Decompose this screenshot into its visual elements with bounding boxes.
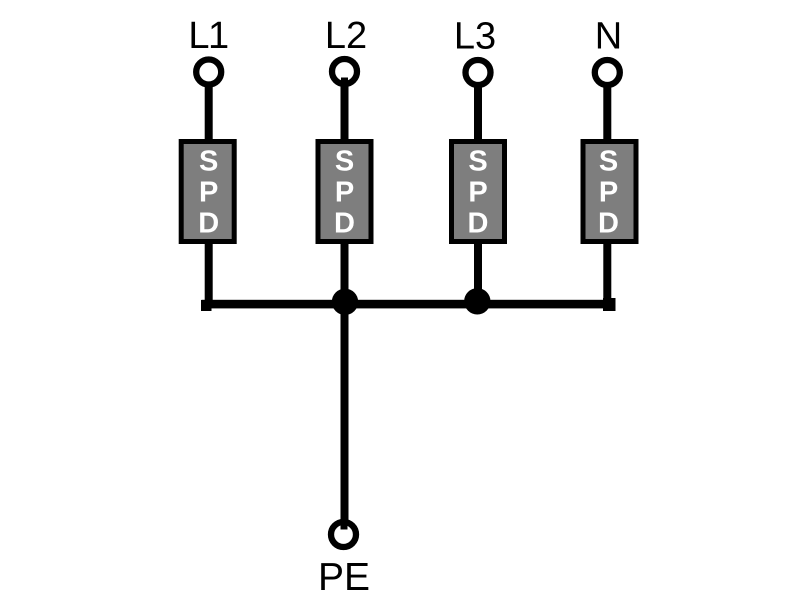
wire tip entering PE terminal: [341, 519, 348, 530]
svg-text:N: N: [595, 16, 622, 58]
wire SPD1 to bus: [205, 241, 213, 305]
terminal L1: [196, 60, 221, 85]
terminal L2: [332, 59, 357, 84]
label N: [595, 16, 622, 58]
svg-text:P: P: [599, 177, 618, 209]
SPD3 value label: [468, 146, 489, 240]
wire L3 terminal to SPD3: [474, 82, 482, 142]
SPD box SPD3: [452, 142, 505, 242]
bus left end cap: [201, 300, 212, 311]
bus wire (horizontal PE bus): [202, 300, 616, 309]
label L2: [325, 15, 367, 57]
wire tip entering L2 terminal: [341, 78, 348, 87]
junction dot at L3 column on bus: [464, 288, 490, 314]
svg-text:D: D: [198, 208, 219, 240]
svg-text:S: S: [468, 146, 487, 178]
SPD4 value label: [598, 146, 619, 240]
svg-text:P: P: [468, 177, 487, 209]
wire SPD2 to bus (continues to PE): [341, 241, 349, 528]
SPD1 value label: [198, 146, 219, 240]
svg-text:P: P: [199, 177, 218, 209]
svg-text:PE: PE: [318, 556, 370, 599]
svg-text:P: P: [335, 177, 354, 209]
junction dot at L2 column on bus: [332, 289, 358, 315]
wire SPD4 to bus: [603, 241, 611, 305]
svg-text:L2: L2: [325, 15, 367, 57]
label L3: [454, 16, 496, 58]
terminal L3: [466, 60, 491, 85]
wire L2 terminal to SPD2: [341, 82, 349, 142]
svg-text:D: D: [598, 208, 619, 240]
svg-text:L1: L1: [188, 15, 228, 57]
wire N terminal to SPD4: [603, 82, 611, 142]
svg-text:S: S: [199, 146, 218, 178]
svg-text:D: D: [468, 208, 489, 240]
terminal PE: [331, 522, 356, 547]
terminal N: [595, 60, 620, 85]
wire L1 terminal to SPD1: [205, 82, 213, 142]
svg-text:S: S: [335, 146, 354, 178]
SPD box SPD4: [583, 142, 636, 242]
label L1: [188, 15, 228, 57]
SPD2 value label: [334, 146, 355, 240]
svg-text:D: D: [334, 208, 355, 240]
svg-text:L3: L3: [454, 16, 496, 58]
bus right end cap: [603, 298, 616, 311]
svg-text:S: S: [599, 146, 618, 178]
SPD box SPD2: [318, 142, 371, 242]
label PE: [318, 556, 370, 599]
wire SPD3 to bus: [474, 241, 482, 305]
SPD box SPD1: [181, 142, 234, 242]
